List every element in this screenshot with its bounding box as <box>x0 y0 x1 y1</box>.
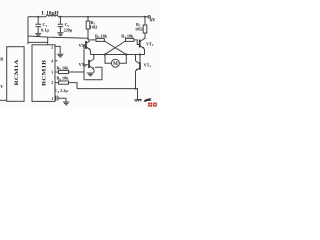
watermark red characters <box>148 103 157 107</box>
node R1 junction <box>87 16 89 18</box>
svg-text:4: 4 <box>51 59 53 63</box>
svg-text:RCM1B: RCM1B <box>41 60 47 86</box>
svg-text:V: V <box>0 84 3 89</box>
ground bottom right <box>134 99 142 101</box>
wire into RCM1A <box>0 99 7 101</box>
motor M1 <box>105 55 111 64</box>
svg-text:3: 3 <box>51 71 53 75</box>
wire drop into RCM1B top <box>47 37 49 45</box>
node C1 junction <box>37 16 39 18</box>
svg-text:5: 5 <box>51 46 53 50</box>
resistor R2 <box>144 17 146 25</box>
svg-text:M: M <box>113 61 118 67</box>
inductor L1 <box>46 15 58 17</box>
ground for C3 <box>63 102 69 105</box>
svg-text:B: B <box>0 56 3 61</box>
capacitor C2 <box>58 17 64 33</box>
wire emitter bus <box>91 54 145 56</box>
svg-text:0.1μ: 0.1μ <box>41 27 49 32</box>
ground for pin5 <box>57 54 63 57</box>
svg-text:L 10μH: L 10μH <box>42 12 59 17</box>
wire short link <box>28 41 48 43</box>
wire pin4 stub <box>55 60 58 62</box>
svg-text:6V: 6V <box>150 18 156 23</box>
node VT4 emitter junction <box>135 88 137 90</box>
IC RCM1A <box>7 47 24 102</box>
wire VT1/VT3 base column <box>83 45 85 80</box>
svg-text:RCM1A: RCM1A <box>14 60 20 86</box>
node VT1 collector <box>87 38 89 40</box>
wire supply drop to RCM1B <box>27 17 29 45</box>
svg-text:VT4: VT4 <box>144 63 152 69</box>
node bus left <box>104 53 106 55</box>
watermark logo bird <box>144 98 152 102</box>
wire top supply rail <box>28 16 148 18</box>
svg-text:1: 1 <box>51 97 53 101</box>
svg-text:C3 2.2μ: C3 2.2μ <box>55 88 69 94</box>
wire horizontal mid link <box>28 36 88 38</box>
wire cross diagonal from R4 to left node <box>105 41 126 54</box>
svg-text:220μ: 220μ <box>64 27 73 32</box>
terminal 6V <box>148 16 150 18</box>
node VT3 collector <box>93 54 95 56</box>
resistor R1 <box>87 17 89 21</box>
capacitor C1 <box>35 17 41 34</box>
wire pin5 to ground <box>55 46 60 53</box>
ground for C1 <box>35 34 41 37</box>
wire cross diagonal from R3 to right node <box>104 41 126 54</box>
ground for C2 <box>57 33 63 36</box>
node bus right <box>125 53 127 55</box>
node VT4 base <box>139 53 141 55</box>
svg-text:10Ω: 10Ω <box>135 26 143 31</box>
wire feedback loop to VT3 emitter <box>84 67 102 80</box>
svg-text:2: 2 <box>51 81 53 85</box>
node C2 junction <box>59 16 61 18</box>
IC RCM1B <box>32 45 55 102</box>
svg-text:10Ω: 10Ω <box>90 25 98 30</box>
node R2 junction <box>144 16 146 18</box>
ground for VT3 emitter <box>87 73 94 76</box>
wire bottom long <box>77 89 138 100</box>
svg-text:VT2: VT2 <box>146 41 154 47</box>
